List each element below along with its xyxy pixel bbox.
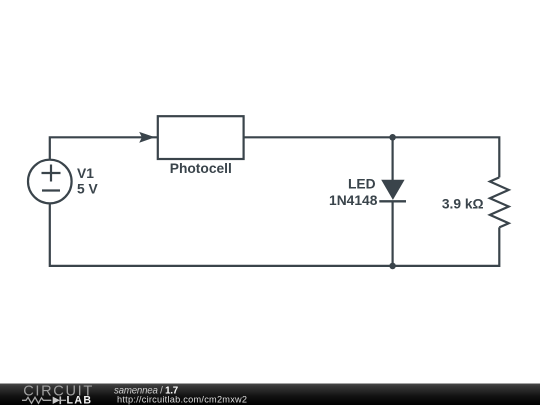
junction node top bbox=[389, 134, 396, 141]
logo resistor zigzag bbox=[22, 397, 51, 403]
wire LED branch top bbox=[392, 137, 394, 180]
wire LED branch bottom bbox=[392, 201, 394, 266]
resistor R1 3.9k zigzag bbox=[490, 177, 509, 227]
voltage source V1 bbox=[28, 160, 72, 204]
svg-text:V1: V1 bbox=[77, 166, 94, 181]
svg-text:Photocell: Photocell bbox=[170, 161, 232, 176]
wire right-bottom segment bbox=[50, 203, 500, 266]
svg-text:3.9 kΩ: 3.9 kΩ bbox=[442, 196, 484, 211]
svg-text:LED: LED bbox=[348, 177, 376, 192]
diode D1 cathode bar bbox=[379, 200, 406, 202]
junction node bottom bbox=[389, 263, 396, 270]
photocell box bbox=[158, 116, 244, 159]
svg-text:http://circuitlab.com/cm2mxw2: http://circuitlab.com/cm2mxw2 bbox=[117, 394, 247, 404]
diode D1 LED triangle bbox=[381, 180, 404, 200]
wire photocell to right corner bbox=[244, 137, 500, 177]
wire arrowhead into photocell bbox=[139, 132, 155, 143]
wire top-left segment bbox=[50, 137, 158, 160]
svg-text:LAB: LAB bbox=[67, 395, 93, 405]
svg-text:5 V: 5 V bbox=[77, 181, 99, 196]
logo diode symbol bbox=[53, 397, 60, 404]
svg-text:1N4148: 1N4148 bbox=[329, 193, 378, 208]
footer bar bbox=[0, 384, 540, 405]
